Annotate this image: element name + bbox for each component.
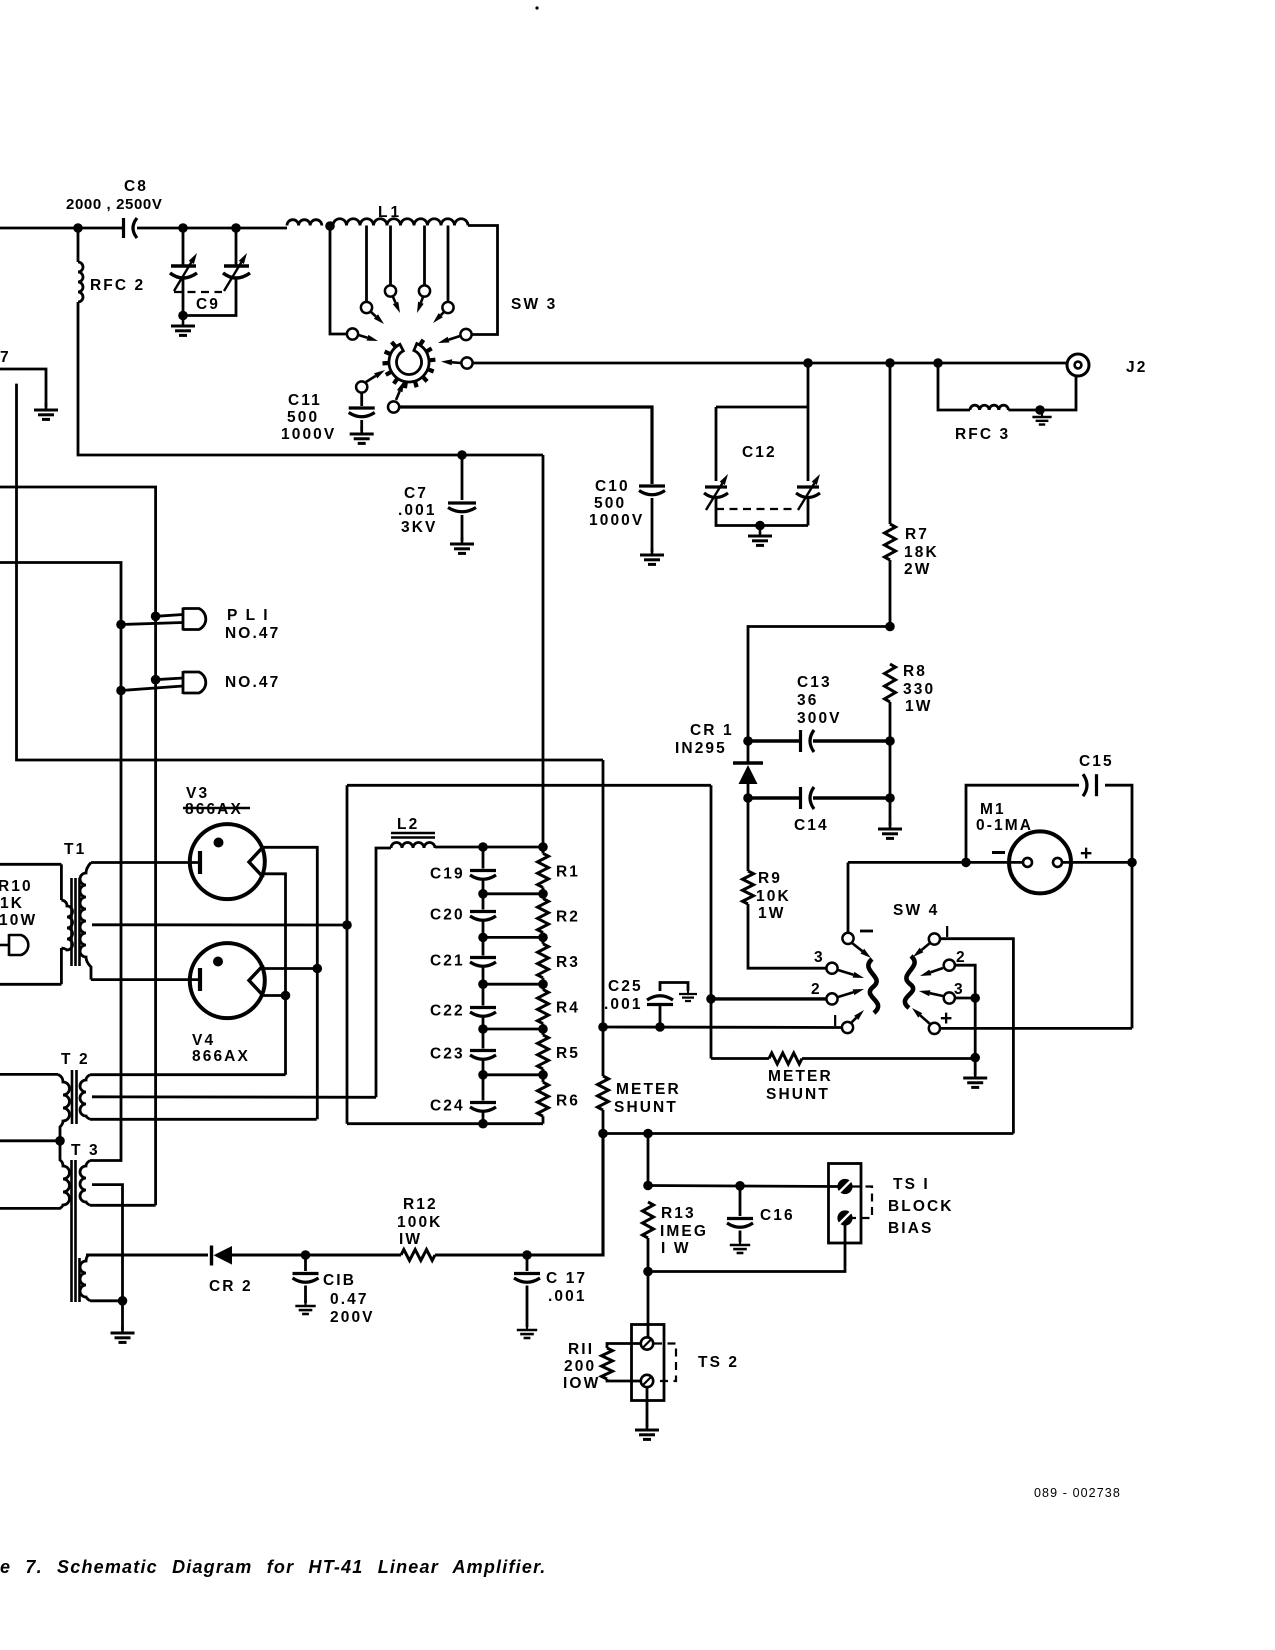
junction V tube filament mid bbox=[342, 920, 352, 930]
svg-text:R3: R3 bbox=[556, 954, 580, 971]
svg-text:NO.47: NO.47 bbox=[225, 625, 280, 642]
wire V4 plate upper bbox=[262, 967, 317, 970]
wire meter shunt 1 top bbox=[602, 1027, 605, 1076]
junction C18 top bbox=[301, 1250, 311, 1260]
wire C20 lower bbox=[482, 922, 485, 938]
wire bus to R1 chain bbox=[542, 455, 545, 847]
arrow SW4 right 3 bbox=[919, 990, 943, 996]
rotary switch SW3 rotor bbox=[383, 340, 436, 388]
wire SW4 plus to meter bbox=[940, 1027, 1132, 1030]
svg-text:100K: 100K bbox=[397, 1214, 442, 1231]
wire T1 sec mid tap bbox=[92, 923, 347, 926]
junction SW4 ground node bbox=[970, 1053, 980, 1063]
junction R13 top bbox=[643, 1129, 653, 1139]
dashed gang link C12 bbox=[716, 508, 795, 510]
lamp PL1 bulb 1 bbox=[183, 608, 206, 631]
wire lamp2 lead b bbox=[121, 686, 183, 691]
svg-text:200V: 200V bbox=[330, 1309, 375, 1326]
svg-text:1000V: 1000V bbox=[281, 426, 336, 443]
svg-text:18K: 18K bbox=[904, 544, 939, 561]
svg-text:.001: .001 bbox=[548, 1288, 587, 1305]
terminal strip TS1 box bbox=[829, 1164, 862, 1244]
junction SW4 R3 node bbox=[970, 993, 980, 1003]
wire C15 left leg bbox=[966, 785, 1079, 862]
wire C9b stem bbox=[235, 228, 238, 265]
resistor R6 bbox=[538, 1082, 549, 1116]
wire rung C19-R1 bbox=[483, 892, 543, 895]
wire C20 upper bbox=[482, 894, 485, 910]
transformer T2 primary bbox=[58, 1074, 70, 1140]
resistor R3 bbox=[538, 944, 549, 978]
inductor RFC3 bbox=[970, 405, 1008, 410]
wire C7 to ground bbox=[461, 515, 464, 541]
svg-text:e 7. Schematic Diagram fo: e 7. Schematic Diagram for HT-41 Linear … bbox=[0, 1557, 546, 1577]
arrow SW4 right plus bbox=[912, 1008, 930, 1024]
junction R13 C16 node bbox=[643, 1181, 653, 1191]
svg-text:I W: I W bbox=[661, 1240, 691, 1257]
wire C22 lower bbox=[482, 1018, 485, 1030]
svg-text:3KV: 3KV bbox=[401, 519, 437, 536]
capacitor C7 bbox=[448, 503, 476, 512]
svg-text:C10: C10 bbox=[595, 478, 630, 495]
capacitor C12 left edge lower bbox=[716, 499, 808, 526]
transformer T3 core bbox=[72, 1160, 80, 1302]
svg-text:C13: C13 bbox=[797, 674, 832, 691]
capacitor C23 bbox=[470, 1051, 496, 1060]
junction C20 bottom bbox=[478, 933, 488, 943]
svg-text:C19: C19 bbox=[430, 866, 465, 883]
wire V3 plate lower bbox=[262, 874, 286, 1075]
junction C17 top bbox=[522, 1250, 532, 1260]
junction V4 plate lower bbox=[281, 991, 291, 1001]
wire meter minus lead bbox=[848, 861, 1022, 864]
svg-text:R10: R10 bbox=[0, 878, 33, 895]
junction C9b top bbox=[231, 223, 241, 233]
svg-text:R2: R2 bbox=[556, 909, 580, 926]
arrow SW4 right 2 bbox=[920, 968, 943, 976]
svg-text:300V: 300V bbox=[797, 710, 842, 727]
wire bottom bias bus bbox=[603, 1132, 1013, 1135]
svg-text:C7: C7 bbox=[404, 485, 428, 502]
wire C13 left bbox=[748, 739, 799, 742]
arrow C12b adjust bbox=[798, 474, 820, 510]
rotor SW4 left wiper bbox=[868, 959, 878, 1013]
wire SW4 left1 bus bbox=[603, 1026, 842, 1029]
junction R7 R8 CR1 bbox=[885, 622, 895, 632]
contact SW3 tap2 bbox=[385, 285, 396, 296]
junction C22 bottom bbox=[478, 1024, 488, 1034]
wire bias bus mid1 bbox=[232, 1253, 401, 1256]
arrow SW3 tap2 bbox=[393, 297, 400, 313]
capacitor C9 section B bbox=[223, 266, 250, 278]
capacitor C12 left edge upper bbox=[715, 407, 718, 481]
wire T3 sec upper bottom lead bbox=[90, 1204, 156, 1207]
contact SW3 left bbox=[347, 328, 358, 339]
wire R6 upper bbox=[542, 1075, 545, 1082]
wire R5 lower bbox=[542, 1069, 545, 1075]
arrow SW3 tap4 bbox=[433, 312, 444, 323]
junction C12 branch bbox=[803, 358, 813, 368]
ground SW4 bbox=[963, 1071, 987, 1087]
contact SW4 right 1 bbox=[929, 933, 940, 944]
junction chain top R1 bbox=[538, 842, 548, 852]
tube V4 anode bbox=[249, 965, 264, 996]
lamp PL1 bulb 2 bbox=[183, 671, 206, 694]
svg-text:2W: 2W bbox=[904, 561, 931, 578]
svg-text:089 - 002738: 089 - 002738 bbox=[1034, 1486, 1121, 1500]
wire rung C20-R2 bbox=[483, 936, 543, 939]
meter M1 bbox=[1009, 831, 1071, 893]
wire C18 stem bbox=[304, 1255, 307, 1271]
resistor R10 box top bbox=[0, 863, 61, 866]
wire V3 plate upper bbox=[262, 847, 317, 1119]
capacitor C24 bbox=[470, 1103, 496, 1112]
ground C18 bbox=[295, 1300, 315, 1314]
wire C18 ground stem bbox=[304, 1286, 307, 1304]
wire R13 upper bbox=[647, 1134, 650, 1186]
svg-text:1000V: 1000V bbox=[589, 512, 644, 529]
svg-text:2000 , 2500V: 2000 , 2500V bbox=[66, 196, 162, 213]
wire R1 upper bbox=[542, 847, 545, 853]
wire R11 bottom lead bbox=[607, 1379, 641, 1381]
wire SW4 left2 lead bbox=[711, 997, 826, 1000]
arrow C9a adjust bbox=[174, 253, 197, 291]
svg-text:P L I: P L I bbox=[227, 607, 270, 624]
svg-text:NO.47: NO.47 bbox=[225, 674, 280, 691]
junction C9a top bbox=[178, 223, 188, 233]
wire L2 right to chain top bbox=[435, 846, 543, 849]
contact SW3 to C11 bbox=[356, 381, 367, 392]
svg-text:R13: R13 bbox=[661, 1205, 696, 1222]
junction lamp2 lead b bbox=[116, 686, 126, 696]
ground RFC3 bbox=[1032, 411, 1051, 424]
contact SW3 tap4 bbox=[442, 302, 453, 313]
svg-text:3: 3 bbox=[814, 949, 825, 966]
wire R6 lower bbox=[542, 1116, 545, 1123]
wire SW4 R1 to bottom bus bbox=[940, 939, 1013, 1134]
wire T2 primary top bbox=[0, 1073, 58, 1076]
svg-text:C15: C15 bbox=[1079, 753, 1114, 770]
wire rung C22-R4 bbox=[483, 1028, 543, 1031]
arrow SW4 left minus bbox=[852, 943, 871, 958]
wire CR1 anode bbox=[747, 784, 750, 798]
wire C23 upper bbox=[482, 1029, 485, 1049]
svg-text:RFC 2: RFC 2 bbox=[90, 277, 145, 294]
wire R1 lower bbox=[542, 887, 545, 893]
svg-text:2: 2 bbox=[956, 949, 967, 966]
wire meter shunt 2 left bbox=[711, 1057, 769, 1060]
junction CR1 cathode bbox=[743, 736, 753, 746]
wire HV input to C8 bbox=[0, 227, 122, 230]
resistor R13 bbox=[643, 1202, 654, 1238]
junction C14 right bbox=[885, 793, 895, 803]
speck bbox=[535, 6, 538, 9]
arrow C9b adjust bbox=[224, 253, 247, 291]
junction C19 bottom bbox=[478, 889, 488, 899]
junction CR1 anode bbox=[743, 793, 753, 803]
wire L1 tap4 bbox=[447, 226, 450, 302]
wire C19 lower bbox=[482, 881, 485, 894]
svg-text:10K: 10K bbox=[756, 888, 791, 905]
resistor R5 bbox=[538, 1035, 549, 1069]
inductor RFC2 bbox=[78, 262, 83, 302]
junction V4 plate upper bbox=[313, 964, 323, 974]
capacitor C21 bbox=[470, 958, 496, 967]
label V3 strike bbox=[183, 807, 250, 810]
transformer T3 primary bbox=[0, 1141, 70, 1209]
junction C9 ground node bbox=[178, 311, 188, 321]
contact SW4 right 3 bbox=[944, 992, 955, 1003]
svg-text:R4: R4 bbox=[556, 1000, 580, 1017]
capacitor C12 box top bbox=[716, 406, 808, 409]
contact SW4 left 2 bbox=[826, 993, 837, 1004]
svg-text:C12: C12 bbox=[742, 444, 777, 461]
wire T3 bias winding top bbox=[86, 1254, 88, 1257]
wire C14 to ground bbox=[889, 741, 892, 826]
wire C16 stem bbox=[739, 1186, 742, 1216]
svg-text:R5: R5 bbox=[556, 1045, 580, 1062]
wire C22 upper bbox=[482, 984, 485, 1005]
wire CR1 to R9 bbox=[747, 798, 750, 871]
svg-text:2: 2 bbox=[811, 981, 822, 998]
wire R11 top lead bbox=[607, 1344, 641, 1349]
resistor R12 bbox=[401, 1250, 435, 1261]
junction contact2 node bbox=[706, 994, 716, 1004]
wire C21 upper bbox=[482, 937, 485, 955]
transformer T1 core bbox=[72, 878, 80, 966]
wire bias bus left bbox=[86, 1253, 208, 1256]
tube V4 envelope bbox=[190, 943, 265, 1018]
resistor R10 box right lower bbox=[60, 948, 63, 984]
transformer T3 secondary lower bbox=[80, 1255, 90, 1301]
svg-text:R1: R1 bbox=[556, 863, 580, 880]
terminal TS2 screw 1 bbox=[641, 1337, 653, 1349]
wire lamp1 lead a bbox=[156, 615, 183, 617]
wire rung C23-R5 bbox=[483, 1073, 543, 1076]
junction R13 bottom bbox=[643, 1267, 653, 1277]
wire RFC3 to J2 bbox=[1008, 377, 1076, 410]
wire L1 tap1 bbox=[365, 226, 368, 302]
tube V3 filament dot bbox=[214, 838, 224, 848]
tube V3 cathode bar bbox=[198, 851, 202, 874]
wire C11 stem bbox=[360, 393, 363, 407]
rotor SW4 right wiper bbox=[905, 956, 915, 1008]
contact SW4 left 3 bbox=[826, 963, 837, 974]
wire R3 lower bbox=[542, 978, 545, 984]
wire SW4 R3 leg bbox=[955, 997, 975, 1000]
wire V3 cathode lead bbox=[91, 861, 200, 864]
svg-text:C23: C23 bbox=[430, 1046, 465, 1063]
capacitor C16 bbox=[727, 1219, 753, 1228]
svg-text:866AX: 866AX bbox=[192, 1048, 250, 1065]
svg-text:J2: J2 bbox=[1126, 359, 1147, 376]
dashed TS2 bracket bbox=[654, 1344, 676, 1382]
wire lamp2 lead a bbox=[156, 678, 183, 680]
capacitor C13 bbox=[801, 730, 815, 752]
inductor input choke bbox=[287, 220, 322, 226]
svg-text:R8: R8 bbox=[903, 663, 927, 680]
tube V3 anode bbox=[249, 847, 264, 878]
junction R2 bottom bbox=[538, 933, 548, 943]
svg-text:.001: .001 bbox=[398, 502, 437, 519]
svg-text:1W: 1W bbox=[758, 905, 785, 922]
transformer T2 core bbox=[72, 1070, 77, 1124]
junction meter minus bbox=[961, 858, 971, 868]
svg-text:0-1MA: 0-1MA bbox=[976, 817, 1033, 834]
wire T2 sec top to V34 bbox=[90, 1073, 286, 1076]
terminal TS1 screw 1 bbox=[839, 1180, 852, 1193]
diode CR2 bbox=[212, 1246, 233, 1266]
svg-text:SHUNT: SHUNT bbox=[614, 1099, 678, 1116]
svg-text:C8: C8 bbox=[124, 178, 148, 195]
svg-text:0.47: 0.47 bbox=[330, 1291, 369, 1308]
wire TS1 lower return bbox=[648, 1224, 845, 1272]
wire C9a stem bbox=[182, 228, 185, 265]
svg-text:C22: C22 bbox=[430, 1003, 465, 1020]
svg-text:C9: C9 bbox=[196, 296, 220, 313]
junction R1 bottom bbox=[538, 889, 548, 899]
wire C16 TS1 lead bbox=[648, 1186, 838, 1187]
svg-text:+: + bbox=[1080, 842, 1092, 865]
svg-text:CIB: CIB bbox=[323, 1272, 356, 1289]
wire R13 to TS2 bbox=[647, 1272, 650, 1339]
wire C11 to ground bbox=[360, 420, 363, 431]
wire meter plus leg bbox=[1131, 862, 1134, 1028]
fuse symbol in R10 box bbox=[0, 934, 28, 956]
junction C21 bottom bbox=[478, 979, 488, 989]
svg-text:200: 200 bbox=[564, 1358, 596, 1375]
svg-text:R6: R6 bbox=[556, 1092, 580, 1109]
junction C8 left bbox=[73, 223, 83, 233]
wire C17 ground stem bbox=[526, 1286, 529, 1328]
capacitor C12 section B bbox=[796, 487, 820, 498]
svg-text:1K: 1K bbox=[0, 895, 24, 912]
arrow SW3 C11 contact bbox=[366, 370, 385, 382]
wire R4 upper bbox=[542, 984, 545, 989]
svg-text:TS I: TS I bbox=[893, 1176, 930, 1193]
ground C25 bbox=[679, 989, 697, 1001]
junction C7 top bbox=[457, 450, 467, 460]
inductor L2 bbox=[391, 843, 435, 849]
wire V4 cathode lead bbox=[91, 978, 200, 981]
wire RFC2 top lead bbox=[77, 228, 80, 262]
svg-text:500: 500 bbox=[287, 409, 319, 426]
svg-text:METER: METER bbox=[768, 1068, 833, 1085]
junction RFC3 ground bbox=[1035, 405, 1045, 415]
arrow SW3 C10 contact bbox=[396, 381, 404, 400]
junction T2 T3 primary bbox=[55, 1136, 65, 1146]
wire HV rectified bus bbox=[17, 384, 604, 760]
resistor R7 bbox=[885, 524, 896, 560]
wire chain bottom bus bbox=[347, 1122, 543, 1125]
svg-text:C20: C20 bbox=[430, 907, 465, 924]
wire V4 plate lower bbox=[260, 994, 286, 997]
svg-text:.001: .001 bbox=[604, 996, 643, 1013]
svg-text:500: 500 bbox=[594, 495, 626, 512]
contact SW4 right plus bbox=[929, 1023, 940, 1034]
svg-text:7: 7 bbox=[0, 349, 11, 366]
wire T3 sec mid tap bbox=[92, 1185, 123, 1301]
ground input bbox=[34, 403, 58, 419]
junction lamp1 lead a bbox=[151, 612, 161, 622]
svg-text:+: + bbox=[940, 1007, 952, 1030]
svg-text:T 3: T 3 bbox=[71, 1142, 100, 1159]
svg-text:866AX: 866AX bbox=[185, 801, 243, 818]
terminal TS1 screw 2 bbox=[839, 1212, 852, 1225]
svg-text:C11: C11 bbox=[288, 392, 322, 409]
connector J2 bbox=[1067, 354, 1089, 376]
junction R3 bottom bbox=[538, 979, 548, 989]
resistor R10 box right bbox=[60, 864, 63, 900]
ground T3 bbox=[111, 1326, 135, 1342]
wire C16 ground stem bbox=[739, 1231, 742, 1243]
wire L1 tap3 bbox=[423, 226, 426, 286]
wire plate RF bus to J2 bbox=[473, 362, 1067, 365]
svg-text:C16: C16 bbox=[760, 1207, 795, 1224]
resistor R1 bbox=[538, 853, 549, 887]
wire TS2 to ground bbox=[646, 1387, 649, 1427]
resistor METER SHUNT left bbox=[598, 1076, 609, 1110]
wire R3 upper bbox=[542, 937, 545, 943]
wire R9 to SW4 bbox=[748, 904, 826, 968]
svg-text:CR 2: CR 2 bbox=[209, 1278, 253, 1295]
resistor METER SHUNT right bbox=[769, 1053, 802, 1064]
transformer T2 secondary bbox=[80, 1075, 90, 1120]
ground C16 bbox=[730, 1239, 750, 1253]
capacitor C18 bbox=[293, 1274, 319, 1283]
svg-text:SHUNT: SHUNT bbox=[766, 1086, 830, 1103]
wire R5 upper bbox=[542, 1029, 545, 1035]
capacitor C14 bbox=[801, 787, 815, 809]
capacitor C9 section A bbox=[170, 266, 197, 278]
wire SW3 to C10 bbox=[400, 407, 653, 484]
wire C19 upper bbox=[482, 847, 485, 869]
capacitor C11 bbox=[349, 408, 375, 417]
wire RFC3 left leg bbox=[938, 363, 970, 410]
capacitor C8 bbox=[124, 218, 138, 238]
wire SW4 minus leg bbox=[847, 862, 850, 932]
junction C25 node bbox=[655, 1022, 665, 1032]
contact SW3 tap1 bbox=[361, 302, 372, 313]
wire C7 stem bbox=[461, 455, 464, 500]
contact SW4 right 2 bbox=[944, 960, 955, 971]
junction chain top C19 bbox=[478, 842, 488, 852]
wire C15 right leg bbox=[1105, 785, 1132, 862]
junction shunt top bbox=[598, 1022, 608, 1032]
resistor R11 bbox=[602, 1348, 613, 1379]
arrow SW4 left 2 bbox=[838, 989, 864, 997]
wire meter plus lead bbox=[1063, 861, 1132, 864]
wire left entry y562 bbox=[0, 563, 121, 1161]
resistor R10 box bottom bbox=[0, 983, 61, 986]
contact SW4 left 1 bbox=[842, 1022, 853, 1033]
wire C25 top hook bbox=[660, 983, 688, 992]
svg-text:M1: M1 bbox=[980, 801, 1006, 818]
resistor R2 bbox=[538, 899, 549, 933]
svg-text:SW 4: SW 4 bbox=[893, 902, 939, 919]
svg-text:R9: R9 bbox=[758, 870, 782, 887]
junction lamp2 lead a bbox=[151, 675, 161, 685]
ground C13 C14 bbox=[878, 822, 902, 838]
arrow SW4 left 1 bbox=[851, 1010, 864, 1023]
junction chain bottom bbox=[478, 1119, 488, 1129]
svg-text:R12: R12 bbox=[403, 1196, 438, 1213]
wire T3 sec lower bottom lead bbox=[90, 1299, 123, 1302]
wire left meter branch vertical bbox=[602, 760, 605, 1027]
ground C12 bbox=[748, 529, 772, 545]
wire C21 lower bbox=[482, 968, 485, 985]
junction L1 left bbox=[325, 221, 335, 231]
